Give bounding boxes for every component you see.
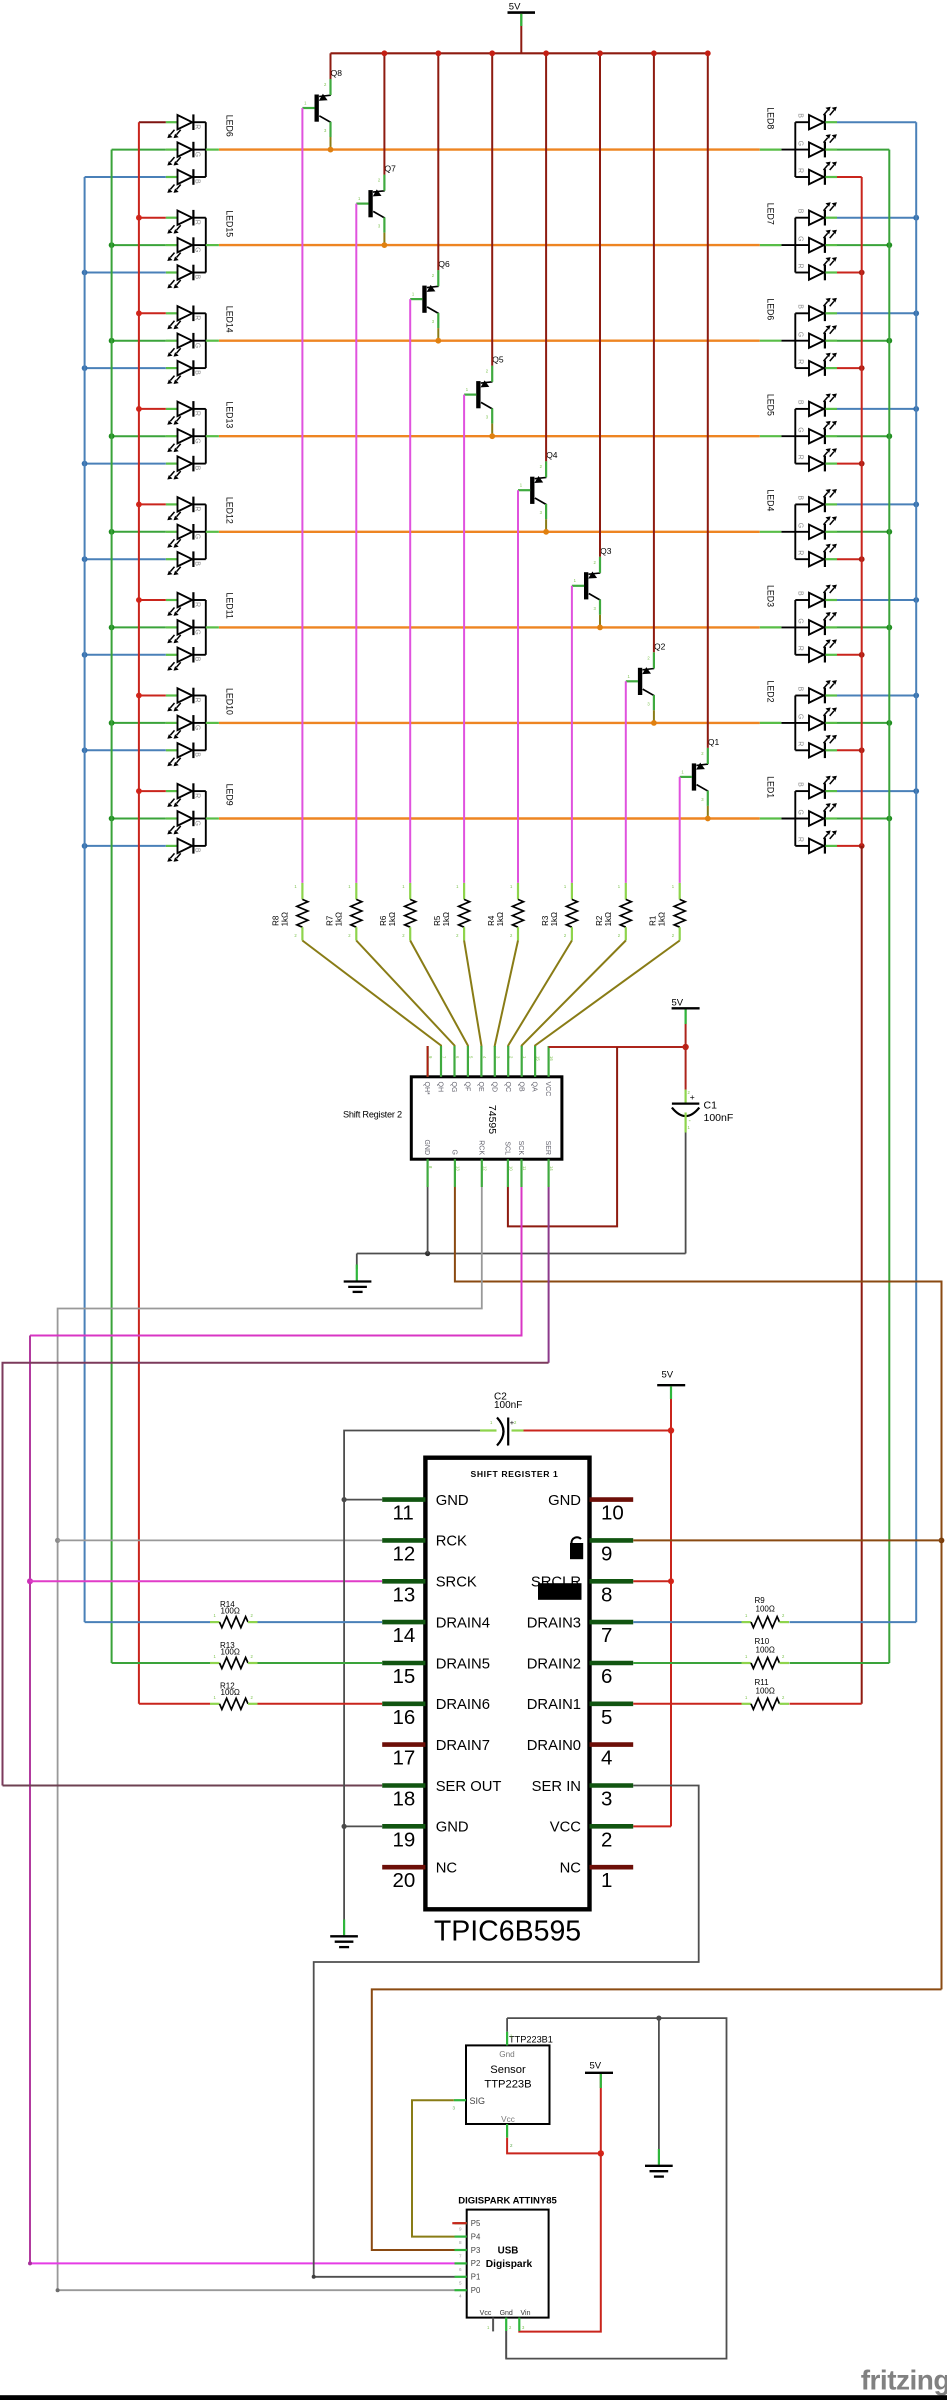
svg-text:B: B xyxy=(194,657,201,662)
junction red bus / LED12.R xyxy=(136,502,142,508)
wire Q7 collector to row2 xyxy=(383,233,385,246)
svg-text:G: G xyxy=(451,1150,458,1155)
wire LED6.G to green bus xyxy=(837,340,889,342)
power symbol 5V (near C2) xyxy=(657,1370,685,1431)
wire digispark Gnd down xyxy=(505,2331,507,2359)
svg-text:QA: QA xyxy=(531,1082,538,1092)
svg-text:DRAIN1: DRAIN1 xyxy=(527,1697,581,1713)
LED LED11 (RGB LED group, left column) xyxy=(166,592,235,670)
wire Q6 base to resistor R6 (magenta) xyxy=(409,299,411,883)
svg-text:7: 7 xyxy=(601,1624,612,1647)
junction 5V bus / Q1 emitter drop xyxy=(705,50,711,56)
svg-text:DRAIN0: DRAIN0 xyxy=(527,1738,581,1754)
svg-text:LED12: LED12 xyxy=(224,497,234,524)
svg-text:USB: USB xyxy=(498,2246,519,2257)
svg-text:Gnd: Gnd xyxy=(499,2050,515,2059)
junction 5V bus / Q6 emitter drop xyxy=(435,50,441,56)
svg-text:R3: R3 xyxy=(541,915,550,926)
resistor R7 1k&#937; xyxy=(325,883,362,941)
junction green bus / LED1.G xyxy=(886,816,892,822)
transistor Q1 (PNP) xyxy=(680,737,720,806)
transistor Q8 (PNP) xyxy=(302,68,342,137)
junction row6 / Q3 collector xyxy=(597,625,603,631)
wire digispark P5 stub (red) xyxy=(452,2222,466,2224)
wire Q8 base to resistor R8 (magenta) xyxy=(301,108,303,883)
junction ground rail / 74595 GND xyxy=(425,1251,430,1256)
svg-text:DRAIN2: DRAIN2 xyxy=(527,1656,581,1672)
junction row5 / Q4 collector xyxy=(543,529,549,535)
svg-text:DRAIN3: DRAIN3 xyxy=(527,1615,581,1631)
wire Q7 base to resistor R7 (magenta) xyxy=(355,204,357,883)
junction 5V bus / Q3 emitter drop xyxy=(597,50,603,56)
wire LED7.G to green bus xyxy=(837,244,889,246)
wire Q8 collector to row1 xyxy=(330,137,332,150)
wire row7 orange (transistor Q2 collector to LED commons) xyxy=(219,722,760,724)
svg-text:QF: QF xyxy=(464,1082,471,1092)
svg-text:R: R xyxy=(797,646,804,651)
wire blue bus to LED12.B xyxy=(85,558,166,560)
junction 5V / C2 / VCC net xyxy=(668,1427,674,1433)
LED LED12 (RGB LED group, left column) xyxy=(166,497,235,575)
wire R12 left to bus xyxy=(139,1703,210,1705)
svg-text:QB: QB xyxy=(517,1082,524,1092)
wire red bus to LED12.R xyxy=(139,503,166,505)
junction 5V bus / Q4 emitter drop xyxy=(543,50,549,56)
resistor R3 1k&#937; xyxy=(541,883,578,941)
LED LED8 (RGB LED group, right column) xyxy=(760,107,837,185)
svg-text:LED7: LED7 xyxy=(765,203,775,225)
wire R9 right to bus xyxy=(790,1621,917,1623)
svg-text:LED15: LED15 xyxy=(224,210,234,237)
resistor R4 1k&#937; xyxy=(487,883,524,941)
LED LED4 (RGB LED group, right column) xyxy=(760,489,837,567)
wire LED1.B to blue bus xyxy=(837,790,916,792)
svg-text:P1: P1 xyxy=(471,2273,481,2282)
svg-text:Vin: Vin xyxy=(521,2310,531,2317)
svg-text:LED13: LED13 xyxy=(224,401,234,428)
wire Q4 base to resistor R4 (magenta) xyxy=(517,490,519,883)
wire green bus to LED15.G xyxy=(112,244,166,246)
junction green bus / LED13.G xyxy=(109,433,115,439)
wire row4 orange (transistor Q5 collector to LED commons) xyxy=(219,435,760,437)
junction green bus / LED9.G xyxy=(109,816,115,822)
svg-text:GND: GND xyxy=(548,1493,581,1509)
wire 74595 VCC to 5V xyxy=(549,1046,686,1048)
wire LED1.G to green bus xyxy=(837,818,889,820)
ground symbol (TPIC) xyxy=(330,1920,358,1948)
svg-text:10: 10 xyxy=(601,1502,624,1525)
svg-text:B: B xyxy=(194,561,201,566)
wire LED8.G to green bus xyxy=(837,149,889,151)
svg-text:LED3: LED3 xyxy=(765,585,775,607)
junction row8 / Q1 collector xyxy=(705,816,711,822)
LED LED1 (RGB LED group, right column) xyxy=(760,776,837,854)
svg-text:Q7: Q7 xyxy=(385,164,397,174)
wire R10 right to bus xyxy=(790,1662,890,1664)
LED LED6 (RGB LED group, right column) xyxy=(760,298,837,376)
LED LED15 (RGB LED group, left column) xyxy=(166,210,235,289)
junction red bus / LED4.R xyxy=(859,556,865,562)
svg-text:G: G xyxy=(797,427,804,432)
wire red bus to LED9.R xyxy=(139,790,166,792)
svg-text:B: B xyxy=(797,113,804,118)
wire R8 to 74595 pin QH xyxy=(302,941,441,1048)
capacitor C2 100nF xyxy=(480,1392,524,1446)
wire Q3 base to resistor R3 (magenta) xyxy=(571,586,573,883)
LED LED2 (RGB LED group, right column) xyxy=(760,680,837,758)
svg-text:15: 15 xyxy=(393,1665,416,1688)
junction green bus / LED3.G xyxy=(886,625,892,631)
transistor Q3 (PNP) xyxy=(572,546,612,615)
sensor TTP223B (touch sensor module) xyxy=(453,2032,553,2148)
svg-text:R4: R4 xyxy=(487,915,496,926)
wire 5V net to digispark Vin xyxy=(519,2153,601,2331)
svg-text:QH: QH xyxy=(437,1082,444,1093)
svg-text:G: G xyxy=(797,810,804,815)
wire green bus to LED14.G xyxy=(112,340,166,342)
wire LED5.B to blue bus xyxy=(837,408,916,410)
transistor Q4 (PNP) xyxy=(518,450,558,519)
resistor R14 100&#937; xyxy=(210,1600,258,1628)
wire LED4.G to green bus xyxy=(837,531,889,533)
junction blue bus / LED14.B xyxy=(82,365,88,371)
svg-text:G: G xyxy=(797,332,804,337)
wire green bus to LED10.G xyxy=(112,722,166,724)
wire blue bus to LED6.B xyxy=(85,176,166,178)
junction ground loop / ground symbol xyxy=(656,2016,661,2021)
wire LED5.R to red bus xyxy=(837,463,862,465)
wire blue bus to LED13.B xyxy=(85,463,166,465)
wire Q3 collector to row6 xyxy=(599,615,601,628)
svg-text:+: + xyxy=(690,1092,695,1102)
junction red bus / LED14.R xyxy=(136,310,142,316)
resistor R9 100&#937; xyxy=(742,1596,790,1628)
svg-text:8: 8 xyxy=(601,1583,612,1606)
wire Q4 collector to row5 xyxy=(545,519,547,532)
junction blue bus / LED6.B xyxy=(913,310,919,316)
svg-text:5V: 5V xyxy=(509,2,521,13)
svg-text:SIG: SIG xyxy=(470,2096,486,2106)
junction row1 / Q8 collector xyxy=(328,147,334,153)
wire row5 orange (transistor Q4 collector to LED commons) xyxy=(219,531,760,533)
svg-text:QC: QC xyxy=(504,1082,511,1093)
wire LED8.R to red bus xyxy=(837,176,862,178)
junction green bus / LED14.G xyxy=(109,338,115,344)
wire ground rail to ground symbol xyxy=(356,1254,358,1270)
svg-text:1kΩ: 1kΩ xyxy=(334,912,343,926)
svg-text:1kΩ: 1kΩ xyxy=(550,912,559,926)
wire R11 left to TPIC xyxy=(633,1703,741,1705)
IC Shift Register 1 (TPIC6B595) xyxy=(382,1458,633,1910)
junction blue bus / LED2.B xyxy=(913,693,919,699)
junction blue bus / LED7.B xyxy=(913,215,919,221)
svg-text:DRAIN6: DRAIN6 xyxy=(436,1697,490,1713)
svg-text:Vcc: Vcc xyxy=(480,2310,492,2317)
wire R1 to 74595 pin QA xyxy=(535,941,680,1048)
junction red bus / LED7.R xyxy=(859,270,865,276)
svg-text:R8: R8 xyxy=(271,915,280,926)
svg-text:19: 19 xyxy=(393,1828,416,1851)
wire blue bus to LED15.B xyxy=(85,272,166,274)
svg-text:Q4: Q4 xyxy=(546,450,558,460)
junction blue bus / LED11.B xyxy=(82,652,88,658)
svg-text:20: 20 xyxy=(393,1869,416,1892)
svg-text:B: B xyxy=(194,275,201,280)
svg-text:TTP223B1: TTP223B1 xyxy=(509,2035,553,2045)
wire 74595 SCK down (magenta) xyxy=(30,1187,522,1336)
svg-text:R: R xyxy=(194,315,201,320)
svg-text:Sensor: Sensor xyxy=(490,2064,526,2076)
junction green bus / LED11.G xyxy=(109,625,115,631)
svg-text:G: G xyxy=(194,152,201,157)
svg-text:SRCK: SRCK xyxy=(436,1575,477,1591)
microcontroller Digispark ATTINY85 xyxy=(455,2196,558,2332)
svg-text:B: B xyxy=(194,752,201,757)
svg-text:R: R xyxy=(194,698,201,703)
wire R12 right to TPIC xyxy=(258,1703,383,1705)
wire red bus to LED15.R xyxy=(139,217,166,219)
junction blue bus / LED5.B xyxy=(913,406,919,412)
svg-text:G: G xyxy=(194,821,201,826)
svg-text:GND: GND xyxy=(423,1139,430,1155)
svg-text:VCC: VCC xyxy=(544,1082,551,1097)
svg-text:Shift Register 2: Shift Register 2 xyxy=(343,1109,402,1119)
svg-text:B: B xyxy=(797,304,804,309)
wire right red bus lower (to R11) xyxy=(861,846,863,1704)
wire 5V bus to Q5 emitter xyxy=(491,53,493,365)
wire Q5 collector to row4 xyxy=(491,424,493,437)
wire C2 to GND vertical xyxy=(344,1431,480,1932)
wire right blue bus (LED cathodes B) xyxy=(915,122,917,1622)
svg-text:B: B xyxy=(797,209,804,214)
wire Q1 base to resistor R1 (magenta) xyxy=(679,777,681,883)
svg-text:B: B xyxy=(194,370,201,375)
svg-text:7: 7 xyxy=(459,2254,462,2259)
svg-text:B: B xyxy=(797,591,804,596)
svg-text:12: 12 xyxy=(482,1166,487,1171)
svg-text:LED2: LED2 xyxy=(765,681,775,703)
wire blue bus to LED14.B xyxy=(85,367,166,369)
svg-text:9: 9 xyxy=(601,1542,612,1565)
svg-text:DIGISPARK ATTINY85: DIGISPARK ATTINY85 xyxy=(458,2196,557,2207)
svg-text:G: G xyxy=(194,343,201,348)
svg-text:Vcc: Vcc xyxy=(501,2115,515,2124)
junction green bus / LED2.G xyxy=(886,720,892,726)
wire sensor Vcc to 5V net xyxy=(507,2138,601,2154)
transistor Q7 (PNP) xyxy=(356,164,396,233)
resistor R2 1k&#937; xyxy=(595,883,632,941)
wire LED2.G to green bus xyxy=(837,722,889,724)
junction green bus / LED10.G xyxy=(109,720,115,726)
wire SCK net vertical xyxy=(29,1336,31,2264)
svg-text:1: 1 xyxy=(601,1869,612,1892)
junction green bus / LED6.G xyxy=(886,338,892,344)
wire right red bus upper (LED cathodes R) xyxy=(861,177,863,846)
junction 5V / VCC / C1 xyxy=(682,1044,688,1050)
wire R13 right to TPIC xyxy=(258,1662,383,1664)
junction red bus / LED11.R xyxy=(136,597,142,603)
svg-text:100nF: 100nF xyxy=(494,1400,522,1411)
junction red bus / LED13.R xyxy=(136,406,142,412)
wire LED5.G to green bus xyxy=(837,435,889,437)
svg-text:100Ω: 100Ω xyxy=(756,1605,775,1614)
svg-text:NC: NC xyxy=(560,1861,582,1877)
svg-text:LED5: LED5 xyxy=(765,394,775,416)
svg-text:P4: P4 xyxy=(471,2232,481,2241)
junction 5V bus / Q2 emitter drop xyxy=(651,50,657,56)
wire row2 orange (transistor Q7 collector to LED commons) xyxy=(219,244,760,246)
junction row4 / Q5 collector xyxy=(489,433,495,439)
svg-text:Q5: Q5 xyxy=(492,355,504,365)
capacitor C1 100nF xyxy=(672,1090,733,1133)
wire LED3.G to green bus xyxy=(837,626,889,628)
svg-text:1kΩ: 1kΩ xyxy=(604,912,613,926)
wire R5 to 74595 pin QE xyxy=(464,941,481,1048)
wire R3 to 74595 pin QC xyxy=(508,941,572,1048)
svg-text:R: R xyxy=(797,264,804,269)
svg-text:Q6: Q6 xyxy=(438,259,450,269)
wire 74595 GND down xyxy=(427,1187,429,1254)
resistor R12 100&#937; xyxy=(210,1682,258,1710)
svg-text:G: G xyxy=(797,141,804,146)
svg-text:P3: P3 xyxy=(471,2246,481,2255)
svg-text:RCK: RCK xyxy=(436,1534,467,1550)
resistor R13 100&#937; xyxy=(210,1641,258,1669)
wire LED4.R to red bus xyxy=(837,558,862,560)
svg-text:5V: 5V xyxy=(590,2061,602,2072)
wire red bus to LED6.R xyxy=(139,121,166,123)
svg-text:4: 4 xyxy=(601,1747,612,1770)
junction red bus / LED9.R xyxy=(136,788,142,794)
wire ground rail horizontal xyxy=(357,1253,686,1255)
svg-text:R: R xyxy=(797,168,804,173)
svg-text:5: 5 xyxy=(459,2280,462,2285)
svg-text:R: R xyxy=(194,602,201,607)
svg-text:SCL: SCL xyxy=(504,1141,511,1155)
wire right green bus (LED cathodes G) xyxy=(888,150,890,1663)
wire left red bus (LED anodes R) xyxy=(138,122,140,1704)
svg-text:Q8: Q8 xyxy=(331,68,343,78)
svg-text:R: R xyxy=(194,220,201,225)
wire red bus to LED11.R xyxy=(139,599,166,601)
LED LED10 (RGB LED group, left column) xyxy=(166,688,235,767)
wire 5V down to TPIC VCC xyxy=(670,1431,672,1827)
wire left green bus (LED anodes G) xyxy=(111,150,113,1663)
svg-text:R: R xyxy=(194,411,201,416)
wire R14 right to TPIC xyxy=(258,1621,383,1623)
wire 5V net to TPIC SRCLR pin8 xyxy=(633,1580,671,1582)
svg-text:5V: 5V xyxy=(662,1370,674,1381)
wire SCK net to TPIC SRCK xyxy=(30,1580,382,1582)
svg-text:LED6: LED6 xyxy=(224,115,234,137)
junction red bus / LED1.R xyxy=(859,843,865,849)
svg-text:DRAIN4: DRAIN4 xyxy=(436,1615,490,1631)
junction RCK net / TPIC pin12 xyxy=(55,1538,60,1543)
svg-text:14: 14 xyxy=(549,1166,554,1171)
svg-text:R7: R7 xyxy=(325,915,334,926)
svg-text:1kΩ: 1kΩ xyxy=(280,912,289,926)
svg-text:R6: R6 xyxy=(379,915,388,926)
wire Q6 collector to row3 xyxy=(437,328,439,341)
IC Shift Register 2 (74595) xyxy=(343,1046,562,1187)
svg-text:3: 3 xyxy=(601,1788,612,1811)
svg-text:G: G xyxy=(797,714,804,719)
wire LED1.R to red bus xyxy=(837,845,862,847)
svg-text:P2: P2 xyxy=(471,2259,481,2268)
junction green bus / LED5.G xyxy=(886,433,892,439)
wire Q1 collector to row8 xyxy=(707,806,709,819)
svg-text:B: B xyxy=(797,687,804,692)
transistor Q2 (PNP) xyxy=(626,641,666,710)
wire R2 to 74595 pin QB xyxy=(522,941,626,1048)
svg-text:VCC: VCC xyxy=(550,1820,582,1836)
svg-text:4: 4 xyxy=(459,2294,462,2299)
resistor R1 1k&#937; xyxy=(649,883,686,941)
svg-text:6: 6 xyxy=(601,1665,612,1688)
junction blue bus / LED3.B xyxy=(913,597,919,603)
svg-text:SER OUT: SER OUT xyxy=(436,1779,502,1795)
svg-text:13: 13 xyxy=(455,1166,460,1171)
junction red bus / LED2.R xyxy=(859,747,865,753)
svg-text:15: 15 xyxy=(536,1056,541,1061)
svg-text:100nF: 100nF xyxy=(704,1112,734,1124)
svg-text:G: G xyxy=(194,247,201,252)
wire R7 to 74595 pin QG xyxy=(356,941,454,1048)
wire 74595 G down (brown) xyxy=(455,1187,942,1989)
svg-text:SER: SER xyxy=(544,1141,551,1155)
wire 74595 SCL to 5V (maroon) xyxy=(508,1047,617,1226)
wire R13 left to bus xyxy=(112,1662,210,1664)
wire LED6.B to blue bus xyxy=(837,312,916,314)
wire green bus to LED12.G xyxy=(112,531,166,533)
wire 5V bus to Q3 emitter xyxy=(599,53,601,557)
svg-text:G: G xyxy=(194,534,201,539)
svg-text:G: G xyxy=(797,236,804,241)
svg-text:5V: 5V xyxy=(672,998,684,1009)
svg-text:R5: R5 xyxy=(433,915,442,926)
junction green bus / LED15.G xyxy=(109,242,115,248)
wire left blue bus (LED anodes B) xyxy=(84,177,86,1622)
svg-text:Q2: Q2 xyxy=(654,641,666,651)
wire LED4.B to blue bus xyxy=(837,503,916,505)
junction 5V bus / Q7 emitter drop xyxy=(382,50,388,56)
bendpoint SER IN net / P1 corner xyxy=(312,2275,316,2279)
svg-text:100Ω: 100Ω xyxy=(756,1686,775,1695)
svg-text:1kΩ: 1kΩ xyxy=(658,912,667,926)
junction blue bus / LED4.B xyxy=(913,502,919,508)
resistor R11 100&#937; xyxy=(742,1678,790,1710)
svg-text:P0: P0 xyxy=(471,2286,481,2295)
svg-text:GND: GND xyxy=(436,1493,469,1509)
junction row2 / Q7 collector xyxy=(382,242,388,248)
wire 5V bus to Q8 emitter xyxy=(330,53,332,79)
wire R14 left to bus xyxy=(85,1621,210,1623)
svg-text:TPIC6B595: TPIC6B595 xyxy=(434,1915,581,1947)
svg-text:16: 16 xyxy=(549,1056,554,1061)
wire LED7.B to blue bus xyxy=(837,217,916,219)
junction blue bus / LED15.B xyxy=(82,270,88,276)
svg-text:LED4: LED4 xyxy=(765,489,775,511)
svg-text:1kΩ: 1kΩ xyxy=(496,912,505,926)
junction SCK net / TPIC SRCK xyxy=(27,1578,33,1584)
junction GND rail / pin19 xyxy=(342,1824,347,1829)
wire RCK net to TPIC RCK xyxy=(58,1539,383,1541)
svg-text:100Ω: 100Ω xyxy=(756,1646,775,1655)
svg-text:QG: QG xyxy=(450,1082,457,1093)
svg-text:74595: 74595 xyxy=(486,1105,498,1134)
LED LED6 (RGB LED group, left column) xyxy=(166,114,235,192)
svg-text:Q3: Q3 xyxy=(600,546,612,556)
